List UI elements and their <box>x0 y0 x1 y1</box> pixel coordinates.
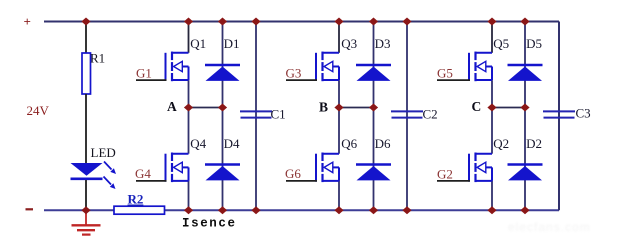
svg-text:G6: G6 <box>285 166 301 181</box>
svg-text:C2: C2 <box>423 107 438 122</box>
svg-text:D1: D1 <box>224 36 240 51</box>
svg-text:A: A <box>167 99 177 114</box>
svg-text:Q6: Q6 <box>341 136 357 151</box>
svg-text:Q4: Q4 <box>190 136 206 151</box>
svg-text:D3: D3 <box>375 36 391 51</box>
svg-text:G2: G2 <box>437 167 453 182</box>
svg-text:D4: D4 <box>224 136 240 151</box>
svg-text:D2: D2 <box>526 136 542 151</box>
svg-text:G5: G5 <box>437 66 453 81</box>
svg-text:G1: G1 <box>136 66 152 81</box>
svg-text:R2: R2 <box>128 192 144 207</box>
svg-text:24V: 24V <box>27 103 50 118</box>
svg-text:Q3: Q3 <box>341 36 357 51</box>
svg-text:Q5: Q5 <box>493 36 509 51</box>
svg-text:Q1: Q1 <box>190 36 206 51</box>
svg-text:+: + <box>24 14 31 29</box>
svg-text:C3: C3 <box>576 106 591 121</box>
svg-text:G3: G3 <box>286 66 302 81</box>
svg-text:B: B <box>319 100 328 115</box>
svg-text:C1: C1 <box>271 107 286 122</box>
svg-text:G4: G4 <box>135 166 151 181</box>
svg-text:C: C <box>472 99 482 114</box>
svg-text:Q2: Q2 <box>493 136 509 151</box>
svg-text:elecfans.com: elecfans.com <box>508 220 591 234</box>
svg-text:D5: D5 <box>526 36 542 51</box>
svg-text:LED: LED <box>91 145 116 160</box>
svg-text:R1: R1 <box>90 51 105 66</box>
svg-text:Isence: Isence <box>182 217 237 231</box>
svg-text:D6: D6 <box>375 136 391 151</box>
